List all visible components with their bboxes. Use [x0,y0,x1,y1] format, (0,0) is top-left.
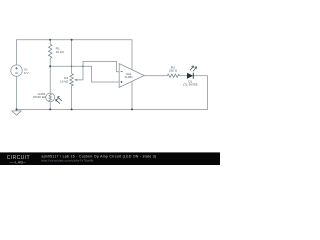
op-amp OA1 [119,64,144,88]
node crossing wiper wire [82,66,83,67]
wire op-amp V- pin [131,82,133,110]
wire bottom rail [17,76,208,110]
LED D1 [183,66,198,87]
node crossing R2 wire [71,66,72,67]
wire op-amp output [144,75,167,77]
wire node A to plus input [50,66,119,82]
wire R3 to LED [179,75,187,77]
node A R1-LDR junction [49,65,51,67]
potentiometer R2 [60,74,77,86]
node junction dots [16,39,134,111]
voltage source V1 [11,65,30,76]
resistor R1 [49,44,65,58]
resistor R3 [167,65,179,77]
wire R1 column [49,40,51,45]
photoresistor LDR1 [33,92,62,104]
wire top rail [17,40,133,70]
wire wiper to minus input [76,61,119,80]
node LDR bottom rail [49,108,51,110]
svg-text:TL081: TL081 [124,75,133,79]
node ground corner [16,108,18,110]
wire R2 column [71,40,73,74]
ground [12,109,21,115]
wire left rail lower [16,76,18,109]
node V- rail [131,108,133,110]
wire LED cathode to right rail [193,75,207,77]
footer bar [0,152,220,165]
node rail-R2 top [71,39,73,41]
node rail-R1 top [49,39,51,41]
svg-text:330 Ω: 330 Ω [169,68,178,72]
svg-text:──LAB─: ──LAB─ [9,160,27,164]
svg-text:90.90 kΩ: 90.90 kΩ [33,95,46,99]
svg-text:http://circuitlab.com/c/pke7e7: http://circuitlab.com/c/pke7e76g46t [42,159,94,163]
svg-text:10 kΩ: 10 kΩ [56,50,65,54]
svg-text:10 kΩ: 10 kΩ [60,79,69,83]
svg-text:LTL-307EE: LTL-307EE [183,82,198,86]
node R2 bottom rail [71,108,73,110]
